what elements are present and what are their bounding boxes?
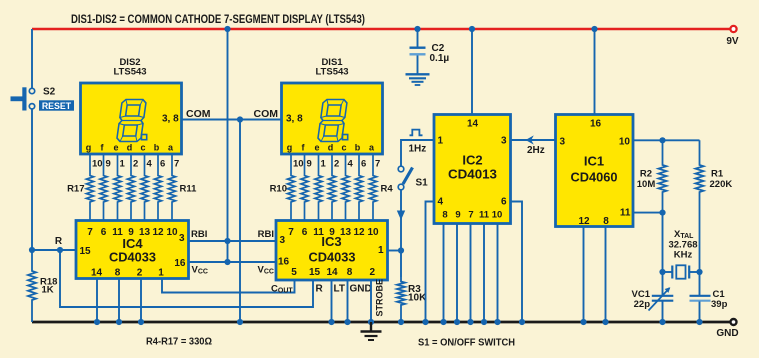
svg-text:7: 7 xyxy=(468,210,473,221)
wire IC4 pin2 to GND xyxy=(140,279,142,323)
display DIS1 decimal point xyxy=(343,135,348,140)
svg-text:11: 11 xyxy=(620,208,631,219)
resistor column 4 of R17-R11 bank (wire DIS2 pin to IC4) xyxy=(127,154,134,221)
junction RBI xyxy=(224,238,230,244)
resistor column 2 of R10-R4 bank (wire DIS1 pin to IC3) xyxy=(301,154,308,221)
svg-text:1: 1 xyxy=(120,159,126,170)
svg-text:R2: R2 xyxy=(640,169,652,180)
svg-text:1: 1 xyxy=(158,268,164,279)
wire 2Hz IC1 pin3 to IC2 pin3 xyxy=(511,139,556,141)
svg-text:22p: 22p xyxy=(634,299,651,310)
svg-text:CD4033: CD4033 xyxy=(109,251,156,265)
wire 9V rail to IC2 pin14 xyxy=(471,29,473,114)
svg-text:e: e xyxy=(314,143,319,153)
switch S1 contact top xyxy=(398,166,404,172)
resistor column 4 of R10-R4 bank (wire DIS1 pin to IC3) xyxy=(328,154,335,221)
wire S1 to IC3 pin1 node xyxy=(400,190,402,277)
svg-text:R: R xyxy=(316,284,324,295)
wire IC4 pin8 to GND xyxy=(118,279,120,323)
wire IC2 pin6 to GND xyxy=(511,202,523,323)
svg-text:13: 13 xyxy=(340,227,352,238)
IC U3 box CD4033 xyxy=(276,221,388,281)
svg-text:IC3: IC3 xyxy=(321,234,341,249)
display DIS2 decimal point xyxy=(142,135,147,140)
svg-text:1: 1 xyxy=(378,245,384,256)
switch S1 contact bottom xyxy=(398,184,404,190)
waveform symbol 1Hz pulse xyxy=(410,130,423,136)
svg-text:6: 6 xyxy=(101,227,107,238)
wire IC3 pin2 to GND xyxy=(370,280,372,322)
svg-text:9: 9 xyxy=(106,159,111,170)
svg-text:10: 10 xyxy=(619,137,631,148)
svg-text:6: 6 xyxy=(501,197,507,208)
capacitor C1 xyxy=(699,272,701,295)
node 9V rail xyxy=(32,28,730,31)
label RESET xyxy=(39,100,74,110)
junction C2 at 9V rail xyxy=(414,26,420,32)
capacitor C2 xyxy=(417,29,419,47)
resistor column 7 of R10-R4 bank (wire DIS1 pin to IC3) xyxy=(369,154,376,221)
svg-text:0.1µ: 0.1µ xyxy=(430,53,450,64)
junction crystal right xyxy=(696,269,702,275)
junction Vcc xyxy=(224,259,230,265)
switch S2 pushbutton actuator xyxy=(11,96,23,101)
junction IC2 pin14 at rail xyxy=(469,26,475,32)
junction R-line / pin15 xyxy=(57,247,63,253)
svg-text:c: c xyxy=(341,143,346,153)
wire IC2 bottom pin x=497.5 to GND xyxy=(497,224,499,323)
resistor column 5 of R17-R11 bank (wire DIS2 pin to IC4) xyxy=(141,154,148,221)
node GND rail xyxy=(32,321,730,324)
svg-text:1K: 1K xyxy=(42,285,54,296)
svg-text:6: 6 xyxy=(160,159,165,170)
svg-text:2Hz: 2Hz xyxy=(527,145,545,156)
wire IC3 pin8 GND to GND xyxy=(347,280,349,322)
svg-text:d: d xyxy=(328,143,334,153)
svg-text:8: 8 xyxy=(115,268,121,279)
svg-text:7: 7 xyxy=(174,159,179,170)
svg-text:b: b xyxy=(154,143,160,153)
wire IC1 pin11 to R2 bottom xyxy=(633,212,663,214)
ground symbol at GND rail xyxy=(370,322,372,332)
svg-text:10K: 10K xyxy=(408,293,427,304)
terminal 9V xyxy=(730,26,736,32)
wire R2 bottom to crystal xyxy=(662,213,664,272)
resistor R18 xyxy=(28,250,36,322)
svg-text:14: 14 xyxy=(326,267,338,278)
svg-text:2: 2 xyxy=(133,159,138,170)
junction R3 GND xyxy=(398,319,404,325)
svg-text:GND: GND xyxy=(716,328,738,339)
junction C1 GND xyxy=(696,319,702,325)
resistor column 6 of R10-R4 bank (wire DIS1 pin to IC3) xyxy=(355,154,362,221)
svg-text:b: b xyxy=(355,143,361,153)
svg-text:g: g xyxy=(86,143,92,153)
svg-text:RESET: RESET xyxy=(42,101,72,111)
switch S1 blade xyxy=(403,168,413,185)
junction R2 top xyxy=(659,137,665,143)
svg-text:CD4060: CD4060 xyxy=(571,171,618,185)
resistor column 1 of R17-R11 bank (wire DIS2 pin to IC4) xyxy=(86,154,93,221)
ground symbol C2 xyxy=(417,73,419,75)
resistor column 5 of R10-R4 bank (wire DIS1 pin to IC3) xyxy=(342,154,349,221)
svg-text:9: 9 xyxy=(455,210,460,221)
switch S2 contact bottom xyxy=(29,104,34,109)
wire IC1 pin8 to GND xyxy=(605,227,607,323)
svg-text:16: 16 xyxy=(278,257,290,268)
svg-text:S2: S2 xyxy=(43,87,56,98)
display DIS1 box xyxy=(282,83,383,154)
wire IC2 pin4 to GND xyxy=(426,202,435,323)
display DIS2 digit xyxy=(116,100,146,142)
junction R2 bottom xyxy=(659,210,665,216)
svg-text:5: 5 xyxy=(291,267,297,278)
wire IC1 pin10 to R1/R2 xyxy=(633,139,700,141)
arrow down on S1 wire xyxy=(397,211,405,221)
wire S2 to node R/R18 xyxy=(31,109,33,250)
svg-text:6: 6 xyxy=(302,227,308,238)
svg-text:GND: GND xyxy=(350,284,372,295)
svg-text:7: 7 xyxy=(87,227,93,238)
svg-text:14: 14 xyxy=(91,268,103,279)
svg-text:3: 3 xyxy=(179,233,185,244)
svg-text:LT: LT xyxy=(334,284,345,295)
junction crystal left xyxy=(659,269,665,275)
IC U4 box CD4033 xyxy=(76,221,189,279)
display DIS1 digit xyxy=(317,100,347,142)
svg-text:10M: 10M xyxy=(637,179,656,190)
resistor R2 xyxy=(659,140,667,212)
crystal XTAL 32.768KHz xyxy=(663,271,673,273)
svg-text:1: 1 xyxy=(438,136,444,147)
svg-text:3, 8: 3, 8 xyxy=(286,114,303,125)
wire Vcc IC4 pin16 to IC3 pin16 xyxy=(189,261,277,263)
svg-text:2: 2 xyxy=(370,267,376,278)
wire IC1 pin12 to GND xyxy=(583,227,585,323)
svg-text:9V: 9V xyxy=(726,36,739,47)
resistor column 3 of R10-R4 bank (wire DIS1 pin to IC3) xyxy=(315,154,322,221)
resistor column 2 of R17-R11 bank (wire DIS2 pin to IC4) xyxy=(100,154,107,221)
svg-text:R4-R17 = 330Ω: R4-R17 = 330Ω xyxy=(146,337,212,348)
terminal GND xyxy=(731,319,737,325)
svg-text:IC4: IC4 xyxy=(122,236,143,251)
svg-text:8: 8 xyxy=(603,216,609,227)
svg-text:7: 7 xyxy=(288,227,294,238)
svg-text:7: 7 xyxy=(375,159,380,170)
svg-text:39p: 39p xyxy=(711,299,728,310)
junction COM-GND xyxy=(237,319,243,325)
svg-text:RBI: RBI xyxy=(258,229,274,240)
resistor column 7 of R17-R11 bank (wire DIS2 pin to IC4) xyxy=(168,154,175,221)
svg-text:COM: COM xyxy=(186,108,211,120)
svg-text:12: 12 xyxy=(353,227,365,238)
svg-text:RBI: RBI xyxy=(191,229,207,240)
wire IC4 pin1 to IC3 Cout pin5 xyxy=(162,279,295,293)
svg-text:10: 10 xyxy=(367,227,379,238)
resistor column 1 of R10-R4 bank (wire DIS1 pin to IC3) xyxy=(287,154,294,221)
svg-text:11: 11 xyxy=(479,210,490,221)
wire IC3 pin15 R to IC4 reset node xyxy=(60,250,313,307)
svg-text:R17: R17 xyxy=(67,184,84,195)
wire IC4 pin15 to left rail xyxy=(32,249,76,251)
svg-text:DIS1-DIS2 = COMMON CATHODE 7-S: DIS1-DIS2 = COMMON CATHODE 7-SEGMENT DIS… xyxy=(71,14,365,26)
wire IC3 pin14 LT to GND xyxy=(331,280,333,322)
wire IC4 pin14 to GND xyxy=(96,279,98,323)
IC U2 box CD4013 xyxy=(434,115,511,224)
resistor column 6 of R17-R11 bank (wire DIS2 pin to IC4) xyxy=(154,154,161,221)
svg-text:3: 3 xyxy=(280,235,286,246)
wire COM to GND rail xyxy=(239,120,241,323)
svg-text:8: 8 xyxy=(442,210,447,221)
svg-text:LTS543: LTS543 xyxy=(113,67,146,78)
svg-text:10: 10 xyxy=(492,210,503,221)
svg-text:e: e xyxy=(113,143,118,153)
wire IC2 pin1 to S1 xyxy=(401,140,434,166)
svg-text:CD4033: CD4033 xyxy=(309,251,356,265)
svg-text:10: 10 xyxy=(293,159,304,170)
svg-text:S1: S1 xyxy=(416,178,429,189)
wire 9V rail to IC1 pin16 xyxy=(594,29,596,114)
svg-text:16: 16 xyxy=(174,258,186,269)
svg-text:12: 12 xyxy=(578,216,590,227)
svg-text:S1 = ON/OFF SWITCH: S1 = ON/OFF SWITCH xyxy=(418,338,515,349)
svg-text:R11: R11 xyxy=(180,184,198,195)
svg-text:KHz: KHz xyxy=(674,250,693,261)
svg-text:10: 10 xyxy=(92,159,103,170)
junction IC1 pin16 at rail xyxy=(591,26,597,32)
junction 9V rail xyxy=(224,26,230,32)
svg-text:c: c xyxy=(140,143,145,153)
wire RBI IC4 pin3 to IC3 pin3 xyxy=(189,240,277,242)
svg-text:4: 4 xyxy=(348,159,354,170)
svg-text:8: 8 xyxy=(347,267,353,278)
wire IC2 bottom pin x=470.5 to GND xyxy=(470,224,472,323)
junction COM xyxy=(237,116,243,122)
svg-text:IC2: IC2 xyxy=(462,153,482,168)
svg-text:15: 15 xyxy=(309,267,321,278)
svg-text:1Hz: 1Hz xyxy=(409,144,427,155)
svg-text:g: g xyxy=(287,143,293,153)
junction VC1 GND xyxy=(659,319,665,325)
svg-text:9: 9 xyxy=(307,159,312,170)
svg-text:2: 2 xyxy=(334,159,339,170)
wire left rail from 9V to S2 xyxy=(31,29,33,88)
svg-text:3: 3 xyxy=(501,136,507,147)
svg-text:3: 3 xyxy=(560,137,566,148)
switch S2 contact top xyxy=(29,88,34,93)
svg-text:R1: R1 xyxy=(711,169,724,180)
svg-text:1: 1 xyxy=(321,159,327,170)
resistor R1 xyxy=(696,140,704,272)
svg-text:R: R xyxy=(55,236,63,247)
junction IC3 pin1 / S1 wire xyxy=(398,247,404,253)
svg-text:4: 4 xyxy=(438,197,444,208)
wire IC3 pin1 to S1 wire xyxy=(388,250,402,252)
svg-text:LTS543: LTS543 xyxy=(315,67,348,78)
svg-text:220K: 220K xyxy=(710,179,733,190)
resistor R3 xyxy=(397,277,405,322)
svg-text:12: 12 xyxy=(152,227,164,238)
svg-text:IC1: IC1 xyxy=(584,154,604,169)
capacitor VC1 variable xyxy=(662,272,664,295)
svg-text:R10: R10 xyxy=(270,184,287,195)
svg-text:d: d xyxy=(127,143,133,153)
svg-text:3, 8: 3, 8 xyxy=(162,114,179,125)
junction left rail / pin15 xyxy=(29,247,35,253)
svg-text:6: 6 xyxy=(361,159,366,170)
svg-text:16: 16 xyxy=(590,119,602,130)
IC U1 box CD4060 xyxy=(556,115,634,227)
svg-text:15: 15 xyxy=(80,246,92,257)
svg-text:10: 10 xyxy=(166,227,178,238)
svg-text:COM: COM xyxy=(254,108,279,120)
resistor column 3 of R17-R11 bank (wire DIS2 pin to IC4) xyxy=(114,154,121,221)
wire 9V rail down to RBI and Vcc xyxy=(227,29,229,262)
svg-text:2: 2 xyxy=(137,268,143,279)
svg-text:CD4013: CD4013 xyxy=(448,168,497,182)
arrow 2Hz pointing left xyxy=(526,135,534,144)
svg-text:R4: R4 xyxy=(381,184,394,195)
wire IC2 bottom pin x=457 to GND xyxy=(456,224,458,323)
wire IC2 bottom pin x=443.5 to GND xyxy=(443,224,445,323)
svg-text:14: 14 xyxy=(467,119,479,130)
wire COM DIS2 to DIS1 xyxy=(182,119,282,121)
wire IC2 bottom pin x=484 to GND xyxy=(483,224,485,323)
svg-text:4: 4 xyxy=(147,159,153,170)
display DIS2 box xyxy=(81,83,182,154)
svg-text:STROBE: STROBE xyxy=(375,279,385,317)
